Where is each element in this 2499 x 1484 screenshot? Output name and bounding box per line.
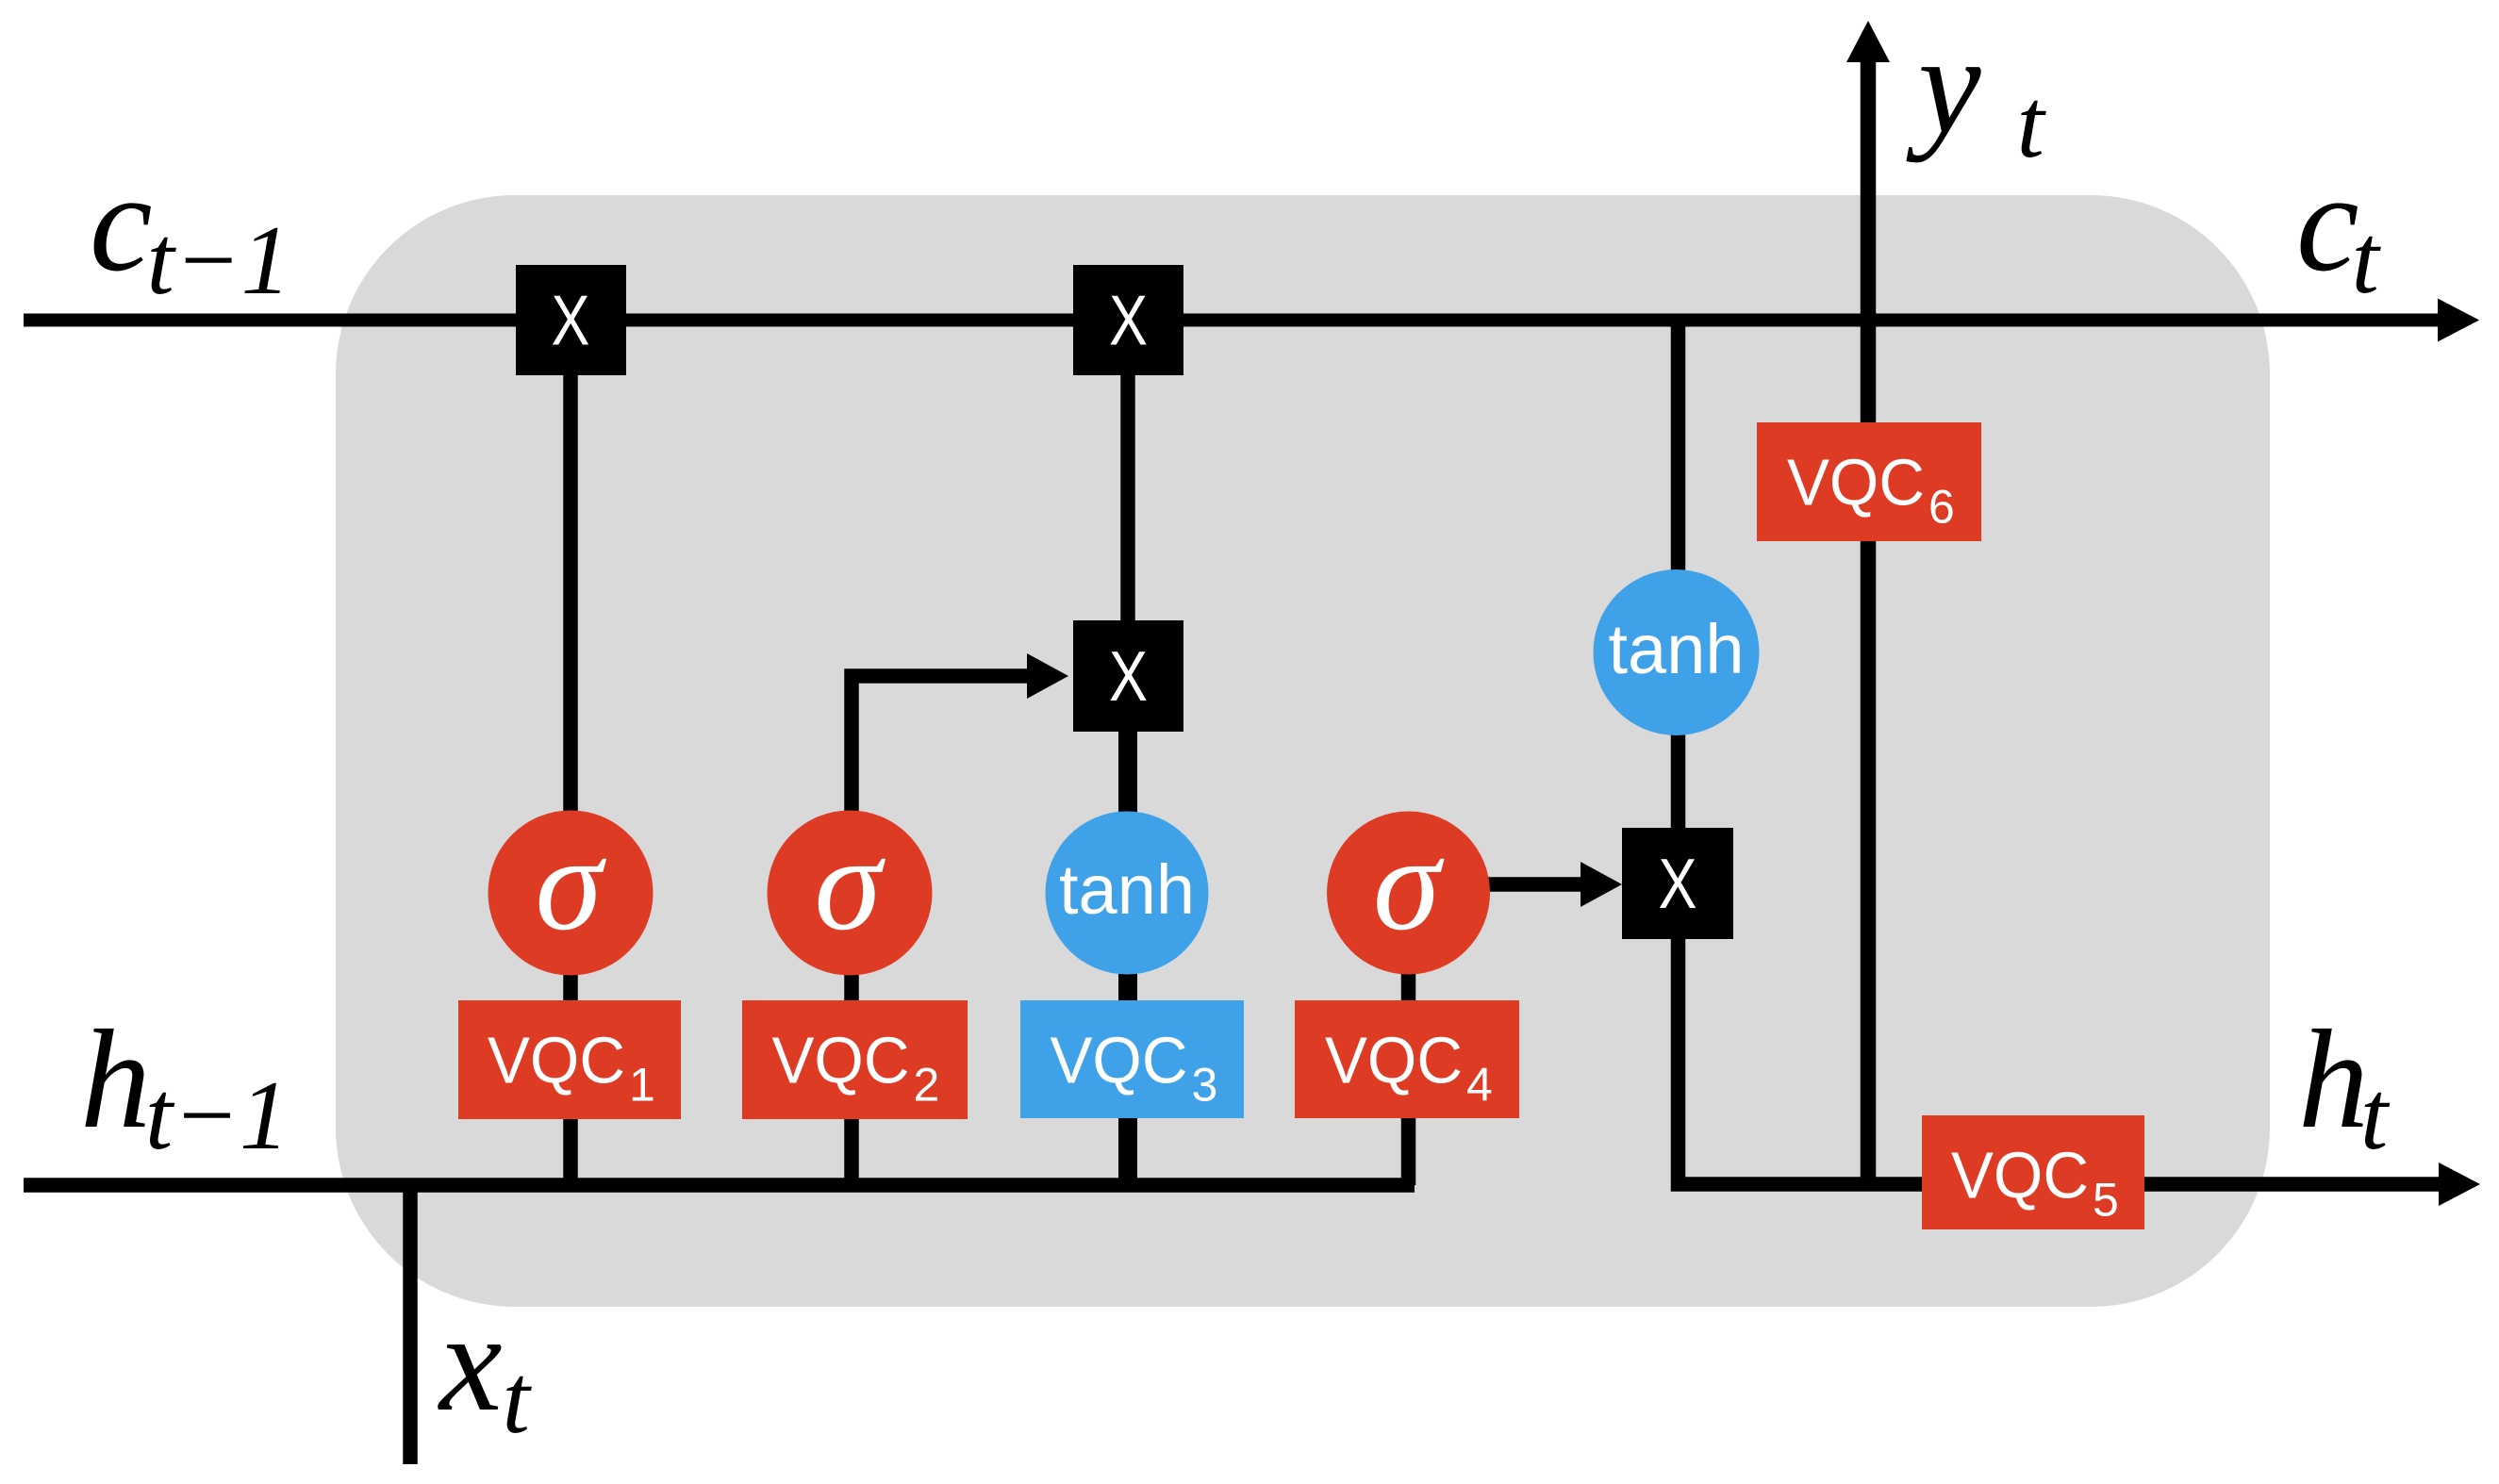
svg-text:σ: σ (814, 809, 885, 959)
wire: hidden-state line h left segment (h_t-1 into gates) (24, 1178, 1415, 1193)
multiply gate X3 (middle) (1073, 620, 1183, 732)
VQC4 box (1295, 1000, 1519, 1118)
svg-text:xt: xt (438, 1284, 533, 1454)
VQC2 box (742, 1000, 968, 1119)
wire: output-gate vertical (h line up through VQC4 to sigma4) (1401, 886, 1416, 1185)
svg-text:ct: ct (2296, 144, 2382, 314)
svg-text:VQC: VQC (1787, 446, 1925, 519)
svg-text:X: X (1659, 844, 1697, 923)
arrowhead y_t (1846, 21, 1890, 62)
multiply gate X2 (1073, 265, 1183, 375)
sigmoid circle sigma1 (488, 809, 654, 976)
svg-text:VQC: VQC (488, 1024, 625, 1097)
wire: output path corner (X4 down, then right to h_t) (1679, 933, 2443, 1184)
svg-text:yt: yt (1906, 7, 2047, 178)
svg-text:X: X (1109, 281, 1148, 360)
multiply gate X4 (right) (1622, 828, 1733, 939)
svg-text:VQC: VQC (1051, 1024, 1188, 1097)
svg-text:tanh: tanh (1059, 850, 1195, 929)
svg-text:VQC: VQC (1325, 1024, 1463, 1097)
svg-text:4: 4 (1466, 1059, 1493, 1112)
svg-text:1: 1 (629, 1059, 655, 1112)
svg-text:ht−1: ht−1 (80, 1001, 290, 1170)
tanh circle (candidate) (1046, 812, 1209, 975)
wire: cell-state line c (top horizontal) (24, 314, 2442, 327)
arrowhead c_t (2438, 299, 2479, 342)
svg-text:5: 5 (2093, 1174, 2119, 1227)
wire: output y_t vertical (1861, 60, 1877, 1190)
wire: cell-to-tanh vertical (c line down to X4) (1671, 320, 1686, 886)
svg-text:ct−1: ct−1 (90, 144, 290, 315)
VQC6 box (1757, 422, 1981, 541)
wire: forget-gate vertical (X1 through sigma1, VQC1 to h line) (563, 320, 578, 1185)
svg-text:X: X (1109, 636, 1148, 716)
svg-text:2: 2 (914, 1059, 940, 1112)
svg-text:VQC: VQC (1951, 1139, 2089, 1212)
svg-text:6: 6 (1928, 481, 1955, 534)
VQC1 box (458, 1000, 681, 1119)
svg-text:σ: σ (535, 809, 606, 959)
wire: candidate vertical lower (X3 through tanh, VQC3 to h line) (1118, 660, 1137, 1185)
VQC3 box (blue) (1020, 1000, 1244, 1118)
VQC5 box (1922, 1115, 2144, 1229)
LSTM cell body (gray rounded rectangle) (336, 195, 2270, 1307)
wire: output-gate arrow into X4 (1409, 877, 1583, 892)
svg-text:σ: σ (1373, 809, 1445, 959)
wire: candidate vertical upper (X2 to X3) (1120, 320, 1135, 676)
svg-text:ht: ht (2298, 1001, 2391, 1170)
multiply gate X1 (516, 265, 626, 375)
arrowhead h_t (2439, 1162, 2480, 1206)
svg-text:X: X (552, 281, 590, 360)
svg-text:VQC: VQC (772, 1024, 910, 1097)
sigmoid circle sigma2 (768, 809, 933, 976)
tanh circle (output path) (1594, 569, 1760, 735)
wire: input x_t vertical (403, 1179, 418, 1464)
svg-text:tanh: tanh (1608, 610, 1744, 688)
svg-text:3: 3 (1192, 1059, 1218, 1112)
sigmoid circle sigma4 (1327, 809, 1490, 975)
wire: input-gate column elbow with arrow into X3 (852, 676, 1028, 1185)
